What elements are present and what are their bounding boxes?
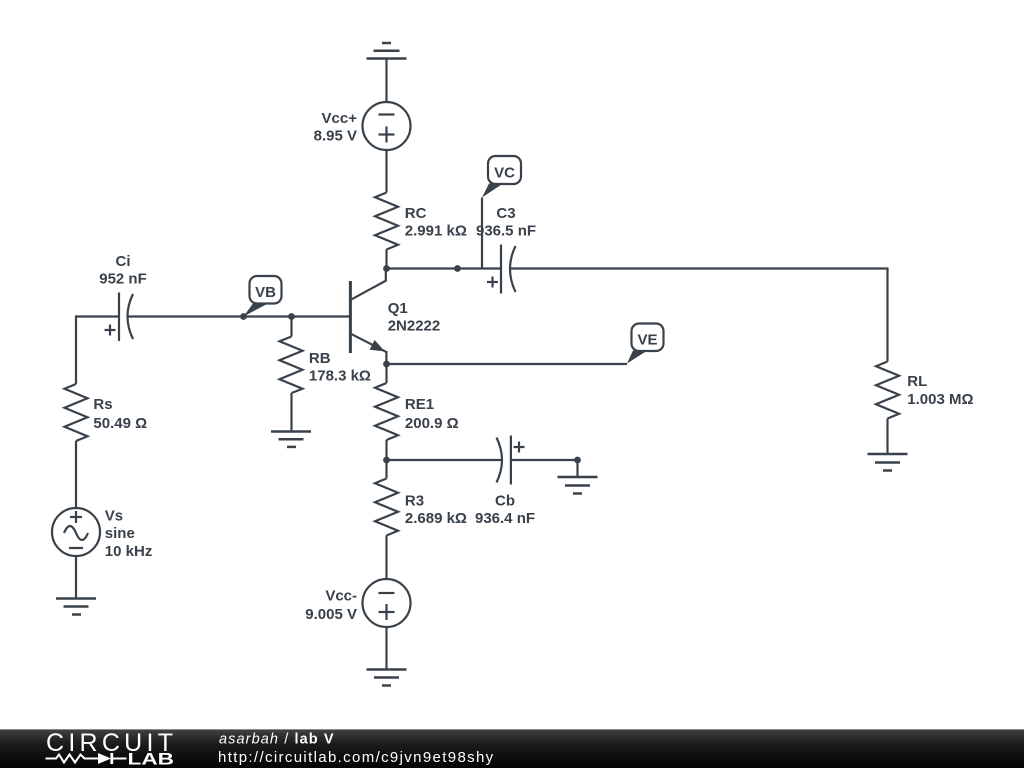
svg-text:RE1: RE1 — [405, 396, 434, 413]
flag VB — [244, 276, 282, 317]
footer bar — [0, 729, 1024, 768]
svg-text:2.991 kΩ: 2.991 kΩ — [405, 222, 467, 239]
svg-text:C3: C3 — [496, 205, 515, 222]
wire Ci to left corner and down to Rs — [76, 317, 119, 385]
node: collector junction — [383, 265, 390, 272]
capacitor Ci 952 nF — [99, 253, 147, 341]
svg-text:VB: VB — [255, 284, 276, 301]
svg-text:936.4 nF: 936.4 nF — [475, 510, 535, 527]
svg-text:Vcc+: Vcc+ — [322, 110, 358, 127]
svg-text:9.005 V: 9.005 V — [305, 606, 357, 623]
node Cb ground — [574, 457, 581, 464]
svg-text:LAB: LAB — [128, 751, 175, 768]
svg-text:VE: VE — [637, 332, 657, 349]
voltage source Vcc+ 8.95 V — [314, 102, 411, 150]
svg-text:Cb: Cb — [495, 493, 515, 510]
svg-text:VC: VC — [494, 165, 515, 182]
svg-text:RB: RB — [309, 350, 331, 367]
wire Vs to ground — [75, 556, 77, 599]
flag VE — [627, 324, 664, 364]
svg-text:sine: sine — [105, 525, 135, 542]
svg-text:10 kHz: 10 kHz — [105, 543, 153, 560]
svg-text:2N2222: 2N2222 — [388, 318, 441, 335]
resistor R3 2.689 kOhm — [375, 460, 467, 579]
wire Vcc- to ground — [385, 627, 387, 670]
wire: base wire from Ci to Q1 — [128, 315, 351, 317]
node VB — [240, 313, 247, 320]
svg-text:Rs: Rs — [93, 396, 112, 413]
voltage source Vcc- 9.005 V — [305, 579, 410, 627]
CircuitLab logo — [46, 729, 175, 768]
wire ground to Vcc+ — [385, 59, 387, 103]
resistor RB 178.3 kOhm — [280, 317, 371, 432]
svg-text:RC: RC — [405, 205, 427, 222]
ground (RL) — [868, 454, 908, 471]
svg-text:2.689 kΩ: 2.689 kΩ — [405, 510, 467, 527]
node RE1/R3/Cb — [383, 457, 390, 464]
wire C3 to RL corner — [511, 269, 888, 362]
svg-text:R3: R3 — [405, 493, 424, 510]
svg-text:8.95 V: 8.95 V — [314, 127, 357, 144]
svg-text:http://circuitlab.com/c9jvn9et: http://circuitlab.com/c9jvn9et98shy — [218, 749, 495, 766]
wire collector node to node A — [387, 267, 458, 269]
flag VC — [482, 156, 521, 269]
wire node to Cb — [387, 459, 503, 461]
ground (Vcc-) — [367, 670, 407, 686]
svg-text:Q1: Q1 — [388, 300, 408, 317]
svg-text:RL: RL — [907, 373, 927, 390]
svg-text:952 nF: 952 nF — [99, 271, 147, 288]
ground (Cb) — [558, 477, 598, 494]
capacitor C3 936.5 nF — [476, 205, 536, 294]
svg-text:Vcc-: Vcc- — [325, 588, 357, 605]
svg-text:50.49 Ω: 50.49 Ω — [93, 415, 147, 432]
ground (RB) — [271, 432, 311, 447]
svg-text:936.5 nF: 936.5 nF — [476, 222, 536, 239]
capacitor Cb 936.4 nF — [475, 436, 535, 528]
transistor Q1 2N2222 — [350, 269, 440, 365]
ground (top, at Vcc+) — [367, 43, 407, 59]
node emitter — [383, 361, 390, 368]
svg-text:178.3 kΩ: 178.3 kΩ — [309, 368, 371, 385]
voltage source Vs sine 10 kHz — [52, 507, 152, 560]
wire node A to C3 — [458, 267, 502, 269]
svg-text:200.9 Ω: 200.9 Ω — [405, 415, 459, 432]
ground (Vs) — [56, 599, 96, 615]
wire node to ground — [576, 460, 578, 477]
svg-text:Ci: Ci — [116, 253, 131, 270]
wire emitter to VE — [387, 363, 628, 365]
svg-text:Vs: Vs — [105, 507, 123, 524]
node A — [454, 265, 461, 272]
resistor Rs 50.49 Ohm — [65, 384, 148, 508]
resistor RC 2.991 kOhm — [375, 193, 467, 269]
svg-text:1.003 MΩ: 1.003 MΩ — [907, 391, 973, 408]
resistor RE1 200.9 Ohm — [375, 364, 459, 460]
wire Cb to ground node — [511, 459, 578, 461]
resistor RL 1.003 MOhm — [876, 362, 974, 455]
footer credit text — [218, 732, 495, 767]
svg-text:asarbah / lab V: asarbah / lab V — [219, 732, 335, 748]
wire Vcc+ to RC — [385, 150, 387, 193]
node RB top — [288, 313, 295, 320]
